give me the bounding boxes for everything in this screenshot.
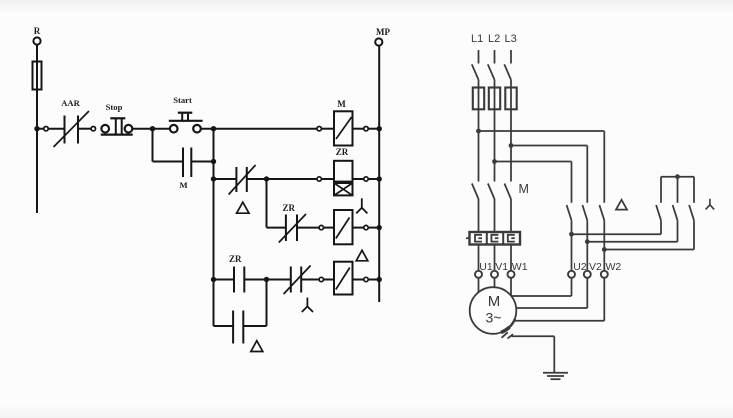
svg-text:R: R — [34, 26, 41, 36]
svg-text:ZR: ZR — [283, 203, 296, 213]
svg-text:Stop: Stop — [106, 102, 123, 112]
svg-text:M: M — [179, 180, 187, 190]
svg-text:V1: V1 — [495, 261, 508, 273]
svg-text:3~: 3~ — [486, 310, 502, 326]
svg-text:W2: W2 — [606, 261, 622, 273]
svg-text:ZR: ZR — [229, 254, 242, 264]
svg-text:M: M — [337, 99, 346, 109]
svg-text:AAR: AAR — [61, 98, 80, 108]
svg-text:L3: L3 — [505, 33, 517, 45]
svg-text:U1: U1 — [479, 261, 493, 273]
svg-text:MP: MP — [376, 27, 390, 37]
svg-text:M: M — [488, 293, 501, 310]
svg-text:W1: W1 — [512, 261, 528, 273]
svg-text:M: M — [519, 182, 529, 196]
svg-text:V2: V2 — [589, 261, 602, 273]
svg-text:U2: U2 — [573, 261, 587, 273]
svg-text:L1: L1 — [471, 33, 483, 45]
svg-text:Start: Start — [173, 95, 192, 105]
svg-text:L2: L2 — [488, 33, 500, 45]
svg-text:ZR: ZR — [336, 147, 349, 157]
